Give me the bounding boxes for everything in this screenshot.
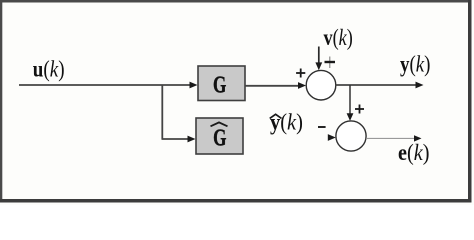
arrowhead into S1 top	[315, 62, 322, 70]
block G	[198, 66, 245, 101]
plus sign at S2 top input	[355, 105, 364, 114]
wire branch to block Ghat	[162, 138, 191, 140]
svg-text:v(k): v(k)	[324, 26, 353, 50]
node yhat(k) label	[270, 109, 303, 134]
arrowhead into S2 top	[347, 113, 354, 121]
minus sign at S2 left input	[318, 126, 326, 128]
arrowhead into block Ghat	[188, 136, 196, 143]
svg-text:u(k): u(k)	[33, 56, 65, 82]
arrowhead into S1 left	[298, 82, 306, 89]
wire block G to summing junction S1	[245, 85, 300, 87]
wire branch junction down to Ghat	[161, 85, 163, 139]
arrowhead e(k) output	[414, 135, 422, 141]
summing junction S1	[306, 70, 336, 100]
plus sign at S1 left input	[296, 69, 305, 78]
node u(k) label	[33, 56, 65, 82]
wire u(k) input to block G	[19, 84, 192, 86]
wire v(k) down into S1	[318, 47, 320, 65]
summing junction S2	[336, 121, 366, 151]
svg-text:y(k): y(k)	[270, 109, 303, 134]
arrowhead into S2 left	[328, 134, 336, 141]
outer frame (decorative)	[0, 0, 472, 3]
node v(k) label	[324, 26, 353, 50]
node y(k) label	[400, 51, 430, 77]
wire branch from y line down to S2	[349, 85, 351, 115]
svg-text:G: G	[213, 71, 226, 99]
node e(k) label	[398, 140, 429, 165]
wire S2 to e(k) output	[366, 137, 416, 139]
arrowhead y(k) output	[416, 82, 424, 89]
arrowhead into block G	[190, 82, 198, 89]
svg-text:e(k): e(k)	[398, 140, 429, 165]
svg-text:G: G	[213, 124, 226, 152]
wire S1 to y(k) output	[336, 84, 418, 86]
block Ghat	[196, 118, 243, 154]
svg-text:y(k): y(k)	[400, 51, 430, 77]
plus sign at S1 top input	[325, 57, 336, 69]
